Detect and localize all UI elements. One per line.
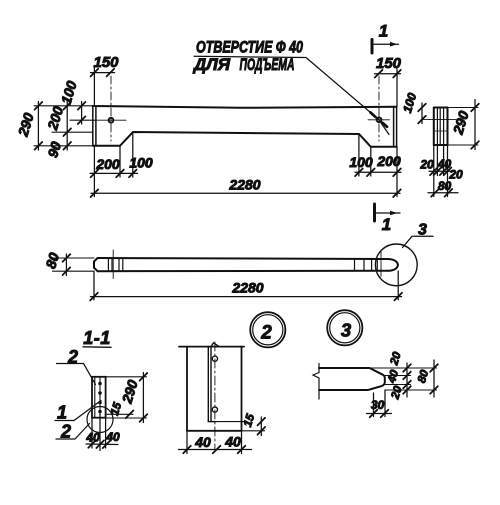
- section 1-1 bottom dims 40 40: [86, 414, 118, 450]
- svg-text:200: 200: [95, 156, 120, 172]
- svg-text:80: 80: [42, 251, 62, 271]
- svg-text:20: 20: [419, 157, 434, 171]
- left extension lines: [34, 106, 96, 146]
- beam left end double edge: [93, 106, 96, 146]
- svg-text:200: 200: [44, 104, 66, 132]
- detail 3 dim 80: [430, 360, 438, 397]
- beam front view outline: [93, 106, 397, 147]
- detail 2 bottom dims 40 40: [179, 431, 252, 454]
- svg-text:290: 290: [449, 109, 471, 137]
- svg-text:20: 20: [388, 350, 404, 367]
- plan view bar outline: [94, 258, 398, 271]
- svg-text:40: 40: [194, 434, 211, 450]
- svg-text:2280: 2280: [228, 177, 260, 193]
- svg-text:100: 100: [349, 154, 373, 170]
- detail 3 extension lines: [371, 368, 437, 390]
- svg-text:40: 40: [386, 368, 402, 385]
- detail 3 break line: [313, 364, 319, 400]
- dimension 100 side view: [418, 103, 426, 124]
- side view dim 80: [428, 189, 458, 197]
- svg-text:100: 100: [58, 79, 80, 106]
- detail 3 dims 20 40 20: [403, 363, 411, 397]
- detail 2 drawing top line: [179, 346, 244, 348]
- svg-text:150: 150: [93, 54, 119, 71]
- detail 2 outer channel: [187, 347, 242, 431]
- plan view weld dashes right: [355, 259, 378, 270]
- note underline and leader to hole: [194, 56, 389, 134]
- svg-text:1: 1: [57, 403, 67, 423]
- svg-text:30: 30: [371, 398, 385, 412]
- dimension 2280 plan view: [90, 271, 402, 300]
- svg-text:80: 80: [416, 368, 431, 384]
- beam right end double edge: [394, 107, 397, 147]
- section 1-1 extension lines: [96, 377, 147, 418]
- svg-text:2280: 2280: [231, 279, 263, 295]
- svg-text:290: 290: [14, 111, 36, 139]
- side view bottom dims 20 40 20: [429, 145, 453, 197]
- section 1-1 plate with bolts: [99, 377, 101, 414]
- svg-text:80: 80: [438, 179, 452, 193]
- dimension 290 side view: [471, 100, 479, 150]
- dimension 150 top-left: [91, 68, 115, 105]
- detail designator circle 2: [250, 312, 285, 347]
- svg-text:1: 1: [379, 22, 388, 41]
- side view (right) of beam end: [434, 108, 448, 146]
- plan view weld dashes left: [108, 259, 122, 271]
- svg-text:3: 3: [341, 320, 352, 341]
- plan view centerline left hole: [112, 250, 114, 279]
- svg-text:100: 100: [400, 91, 419, 115]
- side view inner plate lines: [435, 108, 448, 146]
- svg-text:40: 40: [105, 430, 120, 444]
- detail 2 bolt holes: [212, 356, 217, 361]
- hole right: [368, 76, 390, 141]
- leader to detail 3: [403, 236, 434, 247]
- section 1-1 channel rectangle: [92, 377, 106, 418]
- dimension 100 left (top to hole): [78, 102, 86, 125]
- svg-text:2: 2: [260, 323, 272, 344]
- svg-text:15: 15: [242, 412, 257, 428]
- dimension 15 section 1-1: [126, 411, 134, 419]
- dimension 2280 front view: [91, 189, 401, 197]
- section mark 1 top: [372, 40, 399, 54]
- svg-text:20: 20: [389, 384, 405, 401]
- plan view centerline right hole: [380, 252, 382, 277]
- detail 2 dim 15: [211, 422, 265, 431]
- hole left: [96, 76, 126, 141]
- dimension 200 and 90 left: [63, 102, 71, 151]
- bottom-right dimensions 100 200: [355, 134, 401, 197]
- dimension 150 top-right: [375, 69, 401, 106]
- bottom-left dimensions 200 100: [90, 132, 138, 197]
- detail 3 drawing bar with rounded tip: [319, 368, 385, 390]
- svg-text:ПОДЪЕМА: ПОДЪЕМА: [240, 56, 295, 74]
- side view top/bottom extension lines: [421, 108, 478, 146]
- dimension 290 left: [35, 102, 43, 151]
- dimension 290 section 1-1: [140, 373, 148, 423]
- section 1-1 detail circle: [87, 407, 113, 433]
- section mark 1 bottom: [375, 204, 401, 221]
- detail 2 inner plate: [208, 343, 218, 422]
- svg-text:1: 1: [382, 215, 391, 234]
- svg-text:1-1: 1-1: [83, 328, 111, 348]
- dimension 80 plan view: [53, 258, 95, 271]
- svg-text:150: 150: [376, 55, 402, 72]
- detail 2 centerline: [214, 342, 216, 452]
- detail designator circle 3: [327, 310, 362, 345]
- svg-text:ДЛЯ: ДЛЯ: [192, 56, 231, 74]
- svg-text:40: 40: [224, 434, 241, 450]
- svg-text:ОТВЕРСТИЕ Ф 40: ОТВЕРСТИЕ Ф 40: [196, 39, 304, 57]
- detail 3 dim 30: [367, 390, 392, 417]
- svg-text:290: 290: [118, 378, 140, 406]
- svg-text:200: 200: [376, 153, 401, 169]
- leader arrowheads at hole: [371, 113, 388, 127]
- svg-text:90: 90: [44, 140, 64, 160]
- detail circle around bar tip: [375, 244, 417, 286]
- svg-text:3: 3: [418, 222, 427, 239]
- svg-text:100: 100: [129, 155, 153, 171]
